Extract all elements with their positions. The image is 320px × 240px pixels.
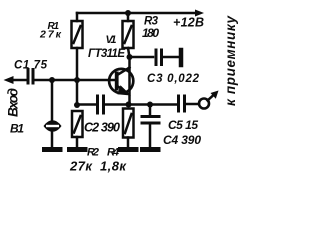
node A junction C1/B1	[49, 77, 55, 83]
transducer B1	[44, 120, 62, 132]
label Вход	[6, 88, 21, 117]
node C junction R2/C2	[74, 102, 80, 108]
label 27к R2 value	[69, 159, 93, 174]
label 27к R1 value	[39, 29, 62, 41]
resistor R1	[72, 21, 83, 48]
wire R1 bottom lead to base node	[76, 48, 79, 80]
arrow input	[4, 76, 27, 84]
wire R4 bottom lead	[127, 138, 130, 148]
capacitor C3	[156, 50, 162, 65]
svg-text:R2: R2	[87, 147, 99, 159]
svg-text:С1 75: С1 75	[14, 60, 48, 72]
svg-text:к приемнику: к приемнику	[223, 15, 238, 106]
wire C1 to node A	[35, 79, 77, 82]
svg-text:С4 390: С4 390	[163, 133, 201, 147]
arrow +12V supply	[195, 10, 204, 17]
label 180 R3 value	[142, 26, 159, 40]
wire emitter node to C4 node	[128, 103, 150, 106]
ground R4	[121, 147, 137, 152]
label R4	[107, 147, 119, 159]
label C5 15	[168, 118, 198, 132]
svg-text:27к: 27к	[39, 29, 62, 41]
capacitor C2	[98, 96, 104, 113]
wire R2 bottom lead	[76, 137, 79, 147]
output terminal	[199, 99, 209, 109]
node E junction collector/C3	[127, 54, 133, 60]
label C2 390	[84, 121, 120, 135]
svg-text:V1: V1	[106, 34, 117, 46]
label 1,8к R4 value	[100, 159, 127, 174]
svg-text:В1: В1	[10, 122, 24, 136]
node D junction top rail/R3	[125, 10, 131, 16]
wire C4 node to C5	[150, 103, 176, 106]
capacitor C1	[28, 70, 33, 84]
svg-text:С3 0,022: С3 0,022	[147, 73, 200, 85]
label +12В	[173, 16, 204, 30]
svg-text:+12В: +12В	[173, 16, 204, 30]
label к приемнику	[223, 15, 238, 106]
label C4 390	[163, 133, 201, 147]
svg-text:ГТ311Е: ГТ311Е	[88, 48, 125, 60]
svg-text:Вход: Вход	[6, 88, 21, 117]
node B junction base/R1	[74, 77, 80, 83]
wire B1 bottom lead	[51, 132, 54, 147]
label R2	[87, 147, 99, 159]
svg-text:27к: 27к	[69, 159, 93, 174]
wire node B down to node C	[76, 80, 79, 105]
wire R1 top lead	[76, 13, 79, 21]
svg-text:С2 390: С2 390	[84, 121, 120, 135]
ground C4	[143, 147, 159, 152]
resistor R4	[123, 109, 134, 138]
wire collector line	[128, 48, 130, 104]
capacitor C5	[179, 96, 185, 111]
wire node C to C2	[77, 103, 95, 106]
svg-text:180: 180	[142, 26, 159, 40]
ground R2	[70, 147, 86, 152]
wire C2 to emitter node	[106, 103, 128, 106]
wire C3 left lead	[130, 56, 154, 59]
label ГТ311Е	[88, 48, 125, 60]
label C1 75	[14, 60, 48, 72]
wire base lead	[77, 79, 116, 82]
resistor R3	[123, 21, 134, 48]
wire R3 top lead	[127, 13, 130, 21]
svg-text:R4: R4	[107, 147, 119, 159]
node G junction C4	[147, 102, 153, 108]
arrow output to receiver	[208, 91, 219, 101]
wire B1 top lead	[51, 80, 54, 120]
wire C3 right lead	[164, 56, 179, 59]
transistor V1	[109, 68, 133, 96]
label В1	[10, 122, 24, 136]
resistor R2	[72, 111, 83, 137]
label C3 0,022	[147, 73, 200, 85]
wire top +12V rail	[77, 12, 197, 15]
wire C5 to output terminal	[187, 103, 199, 106]
svg-text:1,8к: 1,8к	[100, 159, 127, 174]
svg-text:С5 15: С5 15	[168, 118, 198, 132]
node F junction emitter/R4	[126, 102, 132, 108]
label R1	[48, 21, 60, 32]
ground C3 side bar	[179, 50, 184, 65]
label R3	[144, 16, 159, 28]
ground B1	[45, 147, 61, 152]
label V1	[106, 34, 117, 46]
capacitor C4	[142, 105, 159, 148]
